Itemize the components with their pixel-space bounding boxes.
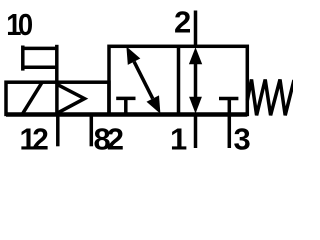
svg-text:1: 1	[170, 122, 187, 157]
svg-text:82: 82	[94, 122, 123, 157]
svg-text:2: 2	[174, 5, 191, 40]
svg-text:12: 12	[20, 122, 48, 157]
svg-text:10: 10	[6, 9, 33, 43]
svg-text:3: 3	[234, 122, 251, 157]
